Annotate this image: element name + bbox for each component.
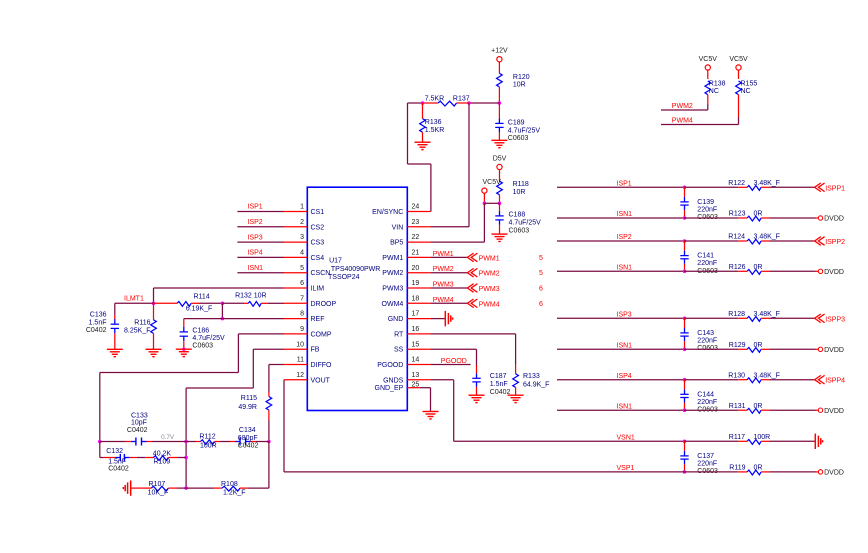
svg-text:24: 24	[412, 204, 420, 211]
wire ISN1 row to R129	[684, 348, 738, 350]
node R118/C188 junction	[498, 202, 502, 206]
resistor R128 3.48K_F	[728, 311, 780, 321]
node ISP4 junction	[683, 378, 687, 382]
pin 1 CS1 name and number	[300, 204, 324, 216]
pin 10 stub wire	[284, 348, 307, 350]
wire PWM1	[431, 256, 468, 258]
power VC5V for R155	[729, 56, 748, 70]
wire COMP route	[100, 334, 284, 442]
offpage connector ISPP2	[815, 237, 846, 246]
pin 20 stub wire	[407, 272, 430, 274]
svg-text:C134: C134	[239, 427, 256, 434]
pin 15 SS name and number	[394, 341, 419, 353]
pin 17 GND name and number	[388, 311, 420, 323]
svg-text:C132: C132	[106, 448, 123, 455]
wire C133 to FB node	[147, 441, 187, 443]
svg-text:4: 4	[300, 250, 304, 257]
svg-text:C141: C141	[697, 253, 714, 260]
pin 21 PWM1 name and number	[382, 250, 419, 262]
svg-text:C186: C186	[192, 327, 209, 334]
pin 7 DROOP name and number	[300, 295, 336, 307]
svg-text:220nF: 220nF	[697, 399, 717, 406]
svg-text:5: 5	[539, 270, 543, 277]
power DVDD VSP1	[818, 470, 844, 477]
svg-text:DVDD: DVDD	[824, 408, 844, 415]
wire D5V to R118	[499, 170, 501, 182]
pin 11 stub wire	[284, 364, 307, 366]
svg-text:21: 21	[412, 250, 420, 257]
resistor R116 8.25K_F	[124, 303, 156, 349]
wire SS to C187	[431, 349, 477, 373]
node FB/rowA junction	[184, 440, 188, 444]
wire node to EN/SYNC corner	[469, 102, 499, 104]
svg-text:R117: R117	[729, 434, 745, 441]
node PWM2 net label	[433, 266, 454, 273]
svg-text:R126: R126	[729, 264, 746, 271]
wire VC5V to BP5	[431, 203, 485, 242]
offpage connector PWM3	[467, 284, 499, 293]
svg-text:R114: R114	[194, 293, 210, 300]
resistor R137 7.5KR	[425, 96, 470, 106]
svg-text:0R: 0R	[754, 264, 763, 271]
svg-text:R115: R115	[241, 395, 257, 402]
svg-text:10R: 10R	[513, 81, 526, 88]
svg-text:CS1: CS1	[311, 209, 325, 216]
node VC5V junction	[483, 202, 487, 206]
resistor R155 NC	[736, 80, 758, 95]
offpage connector PWM2	[467, 268, 499, 277]
wire ISN1 row to R131	[684, 409, 738, 411]
resistor R109 40.2K	[153, 450, 172, 465]
svg-text:0R: 0R	[754, 465, 763, 472]
svg-text:64.9K_F: 64.9K_F	[523, 381, 549, 388]
svg-text:C0402: C0402	[490, 389, 511, 396]
offpage connector ISPP4	[815, 375, 846, 384]
svg-text:220nF: 220nF	[697, 260, 717, 267]
svg-text:GNDS: GNDS	[383, 377, 404, 384]
svg-text:ISP4: ISP4	[248, 250, 263, 257]
node ISN1 label	[617, 264, 633, 271]
offpage connector ISPP3	[815, 314, 846, 323]
wire R119 to DVDD	[770, 471, 819, 473]
resistor R107 10K_F	[148, 481, 169, 496]
pin 1 stub wire	[284, 211, 307, 213]
wire ISN1 row left	[557, 348, 684, 350]
svg-text:10pF: 10pF	[131, 420, 147, 427]
svg-text:9: 9	[300, 326, 304, 333]
svg-text:1.2K_F: 1.2K_F	[223, 489, 246, 496]
power VC5V	[482, 179, 501, 193]
wire VIN to +12V node	[431, 103, 469, 227]
resistor R131 0R	[729, 403, 763, 413]
page number 5 for PWM2	[539, 270, 543, 277]
svg-text:R136: R136	[425, 119, 442, 126]
pin 3 CS3 name and number	[300, 234, 324, 246]
wire R112 to C134	[215, 441, 236, 443]
node 0.7V label	[161, 434, 175, 441]
wire ISN1 row left	[557, 409, 684, 411]
wire rowA right end down to rowC	[268, 442, 270, 489]
wire ISP3 row left	[557, 317, 684, 319]
pin 19 stub wire	[407, 287, 430, 289]
wire R124 left stub	[738, 240, 747, 242]
wire R130 left stub	[738, 379, 747, 381]
wire R129 right stub	[761, 348, 769, 350]
wire R132 to DROOP	[261, 302, 284, 304]
svg-text:VSN1: VSN1	[617, 434, 635, 441]
svg-text:ISN1: ISN1	[617, 264, 633, 271]
pin 12 stub wire	[284, 379, 307, 381]
pin 13 stub wire	[407, 379, 430, 381]
svg-text:PWM3: PWM3	[479, 286, 500, 293]
wire R130 to ISPP4	[770, 379, 815, 381]
svg-text:COMP: COMP	[311, 331, 332, 338]
node REF junction	[221, 317, 225, 321]
svg-text:10: 10	[296, 341, 304, 348]
wire VSN1 to R117	[684, 440, 738, 442]
pin 9 stub wire	[284, 333, 307, 335]
svg-text:1.5nF: 1.5nF	[490, 381, 508, 388]
resistor R132 10R	[235, 293, 266, 307]
svg-text:VC5V: VC5V	[699, 56, 718, 63]
resistor R124 3.48K_F	[728, 234, 780, 244]
svg-text:CSCN: CSCN	[311, 270, 331, 277]
wire C132 to R109	[129, 457, 153, 459]
svg-text:19: 19	[412, 280, 420, 287]
svg-text:2: 2	[300, 219, 304, 226]
node VSN1 label	[617, 434, 635, 441]
ground C136	[107, 349, 123, 356]
wire R123 left stub	[738, 217, 747, 219]
wire R131 right stub	[761, 409, 769, 411]
svg-text:ISPP3: ISPP3	[825, 316, 845, 323]
wire R126 to DVDD	[770, 270, 819, 272]
svg-text:PWM3: PWM3	[433, 282, 454, 289]
pin 15 stub wire	[407, 348, 430, 350]
wire ISP4 row left	[557, 379, 684, 381]
capacitor C186 4.7uF/25V	[180, 319, 225, 350]
wire top row to EN/SYNC drop	[408, 102, 423, 104]
wire R128 to ISPP3	[770, 317, 815, 319]
ground R116	[146, 349, 162, 356]
node ISN1 label	[248, 265, 264, 272]
svg-text:NC: NC	[741, 88, 751, 95]
svg-text:23: 23	[412, 219, 420, 226]
pin 2 stub wire	[284, 226, 307, 228]
svg-text:ISP2: ISP2	[248, 219, 263, 226]
svg-text:DROOP: DROOP	[311, 301, 337, 308]
svg-text:SS: SS	[394, 347, 404, 354]
node ISP2 junction	[683, 239, 687, 243]
svg-text:RT: RT	[394, 331, 404, 338]
svg-text:0R: 0R	[754, 342, 763, 349]
svg-text:PWM4: PWM4	[479, 301, 500, 308]
wire ISP2 row left	[557, 240, 684, 242]
wire R128 left stub	[738, 317, 747, 319]
svg-text:49.9R: 49.9R	[238, 404, 257, 411]
svg-text:CS4: CS4	[311, 255, 325, 262]
svg-text:VOUT: VOUT	[311, 377, 331, 384]
capacitor C133 10pF	[127, 413, 148, 446]
pin 6 ILIM name and number	[300, 280, 324, 292]
svg-text:PWM1: PWM1	[479, 255, 500, 262]
svg-text:ISP1: ISP1	[248, 204, 263, 211]
svg-text:C187: C187	[490, 373, 507, 380]
pin 23 stub wire	[407, 226, 430, 228]
svg-text:C143: C143	[697, 330, 714, 337]
wire ILMT1 to C136	[115, 303, 154, 320]
ground R133	[508, 395, 524, 402]
node PWM4 net label	[433, 297, 454, 304]
resistor R118 10R	[497, 181, 529, 196]
node PWM1 net label	[433, 251, 454, 258]
svg-text:DVDD: DVDD	[824, 216, 844, 223]
svg-text:1.5KR: 1.5KR	[425, 127, 444, 134]
pin 16 RT name and number	[394, 326, 419, 338]
offpage connector PWM4	[467, 299, 499, 308]
svg-text:0R: 0R	[754, 211, 763, 218]
wire ISP2 row to R124	[684, 240, 738, 242]
resistor R133 64.9K_F	[513, 364, 550, 395]
svg-text:C188: C188	[509, 212, 526, 219]
U17 reference designator label	[328, 258, 380, 281]
wire EN/SYNC vertical	[408, 103, 431, 212]
ground rowC left	[123, 480, 130, 495]
wire R117 right stub	[761, 440, 769, 442]
resistor R123 0R	[729, 211, 763, 221]
svg-text:C0603: C0603	[508, 135, 529, 142]
ground C189	[491, 140, 507, 147]
page number 5 for PWM1	[539, 255, 543, 262]
svg-text:15: 15	[412, 341, 420, 348]
svg-text:C0603: C0603	[192, 343, 213, 350]
power D5V	[493, 156, 507, 170]
wire ISN1 row left	[557, 217, 684, 219]
pin 20 PWM2 name and number	[382, 265, 419, 277]
svg-text:ISPP1: ISPP1	[825, 185, 845, 192]
svg-text:10R: 10R	[254, 293, 267, 300]
ground C187	[469, 395, 485, 402]
svg-text:ISPP4: ISPP4	[825, 378, 845, 385]
wire R119 right stub	[761, 471, 769, 473]
wire R114 to node	[191, 302, 222, 304]
pin 16 stub wire	[407, 333, 430, 335]
wire FB route	[186, 349, 284, 488]
ground GND_EP	[423, 412, 439, 419]
page number 6 for PWM4	[539, 301, 543, 308]
pin 19 PWM3 name and number	[382, 280, 419, 292]
resistor R115 49.9R	[238, 395, 271, 442]
node ISP3 label	[248, 234, 263, 241]
offpage connector PWM1	[467, 253, 499, 262]
capacitor C144 220nF	[680, 380, 718, 414]
resistor R108 1.2K_F	[221, 481, 246, 496]
svg-text:220nF: 220nF	[697, 338, 717, 345]
svg-text:GND_EP: GND_EP	[375, 385, 404, 392]
svg-text:C139: C139	[697, 199, 714, 206]
offpage connector ISPP1	[815, 183, 846, 192]
node ISN1 label	[617, 403, 633, 410]
node ISP4 label	[248, 250, 263, 257]
node R137/VIN junction	[467, 101, 471, 105]
svg-text:40.2K: 40.2K	[153, 450, 172, 457]
svg-text:NC: NC	[709, 88, 719, 95]
svg-text:4.7uF/25V: 4.7uF/25V	[509, 219, 542, 226]
wire PWM2	[431, 272, 468, 274]
wire R118 to node	[499, 195, 501, 204]
pin 13 GNDS name and number	[383, 372, 419, 384]
wire PWM4 row	[661, 124, 739, 126]
svg-text:C144: C144	[697, 391, 714, 398]
svg-text:R131: R131	[729, 403, 746, 410]
wire R131 left stub	[738, 409, 747, 411]
wire GND pin 17	[431, 318, 446, 320]
svg-text:PWM4: PWM4	[672, 117, 693, 124]
svg-text:ILMT1: ILMT1	[124, 296, 144, 303]
node PWM3 net label	[433, 282, 454, 289]
wire ISN1 row to R126	[684, 270, 738, 272]
svg-text:ISP3: ISP3	[617, 311, 632, 318]
wire DIFFO route	[269, 365, 284, 397]
svg-text:DVDD: DVDD	[824, 470, 844, 477]
svg-text:3.48K_F: 3.48K_F	[754, 180, 780, 187]
power VC5V for R138	[699, 56, 718, 70]
wire net ISP1 to pin 1	[237, 211, 284, 213]
svg-text:R116: R116	[134, 320, 150, 327]
wire R123 to DVDD	[770, 217, 819, 219]
capacitor C143 220nF	[680, 318, 718, 352]
svg-text:ISN1: ISN1	[617, 403, 633, 410]
wire net ISP3 to pin 3	[237, 241, 284, 243]
pin 12 VOUT name and number	[296, 372, 330, 384]
pin 18 stub wire	[407, 302, 430, 304]
svg-text:0R: 0R	[754, 403, 763, 410]
capacitor C139 220nF	[680, 187, 718, 221]
node R120/C189 junction	[498, 101, 502, 105]
svg-text:20: 20	[412, 265, 420, 272]
wire R117 left stub	[738, 440, 747, 442]
svg-text:R124: R124	[728, 234, 745, 241]
node FB/rowC junction	[184, 486, 188, 490]
node ISN1 junction	[683, 216, 687, 220]
wire R124 to ISPP2	[770, 240, 815, 242]
svg-text:18: 18	[412, 295, 420, 302]
ground pin 17	[445, 311, 452, 326]
svg-text:3: 3	[300, 234, 304, 241]
wire net ISP2 to pin 2	[237, 226, 284, 228]
pin 7 stub wire	[284, 302, 307, 304]
wire ISP3 row to R128	[684, 317, 738, 319]
node PWM4 label	[672, 117, 693, 124]
svg-text:22: 22	[412, 234, 420, 241]
wire RT to R133	[431, 334, 516, 364]
svg-text:R155: R155	[741, 80, 758, 87]
svg-text:DVDD: DVDD	[824, 347, 844, 354]
svg-text:PGOOD: PGOOD	[377, 362, 403, 369]
svg-text:BP5: BP5	[390, 240, 403, 247]
svg-text:R128: R128	[728, 311, 745, 318]
svg-text:DIFFO: DIFFO	[311, 362, 333, 369]
node ISP1 label	[617, 180, 632, 187]
pin 14 stub wire	[407, 364, 430, 366]
ground R136	[415, 142, 431, 149]
power DVDD	[818, 347, 844, 354]
resistor R120	[497, 73, 530, 88]
wire PWM3	[431, 287, 468, 289]
svg-text:OWM4: OWM4	[382, 301, 404, 308]
svg-text:7.5KR: 7.5KR	[425, 96, 444, 103]
pin 2 CS2 name and number	[300, 219, 324, 231]
pin 5 CSCN name and number	[300, 265, 330, 277]
svg-text:PGOOD: PGOOD	[441, 358, 467, 365]
node ISN1 junction	[683, 408, 687, 412]
svg-text:U17: U17	[329, 258, 342, 265]
node PWM2 label	[672, 103, 693, 110]
wire ILIM pin6 to ILMT1	[154, 288, 285, 303]
svg-text:100R: 100R	[200, 443, 217, 450]
svg-text:GND: GND	[388, 316, 404, 323]
wire node to R132	[222, 302, 248, 304]
pin 10 FB name and number	[296, 341, 320, 353]
svg-text:+12V: +12V	[491, 48, 508, 55]
wire GNDS to VSN1	[431, 380, 684, 442]
svg-text:ILIM: ILIM	[311, 286, 325, 293]
node C186 ground junction	[182, 348, 185, 351]
svg-text:PWM1: PWM1	[382, 255, 403, 262]
pin 21 stub wire	[407, 256, 430, 258]
svg-text:13: 13	[412, 372, 420, 379]
svg-text:R133: R133	[523, 373, 540, 380]
node ISN1 label	[617, 342, 633, 349]
svg-text:14: 14	[412, 357, 420, 364]
svg-text:D5V: D5V	[493, 156, 507, 163]
svg-text:10R: 10R	[513, 189, 526, 196]
resistor R114 6.19K_F	[177, 293, 212, 312]
svg-text:ISP2: ISP2	[617, 234, 632, 241]
wire VC5V to R138	[707, 70, 709, 79]
capacitor C141 220nF	[680, 241, 718, 275]
svg-text:3.48K_F: 3.48K_F	[754, 311, 780, 318]
power +12V	[491, 48, 508, 62]
svg-text:R118: R118	[513, 181, 529, 188]
pin 24 EN/SYNC name and number	[372, 204, 419, 216]
wire FB node to R112	[186, 441, 200, 443]
wire R126 left stub	[738, 270, 747, 272]
svg-text:VIN: VIN	[392, 224, 404, 231]
wire R107 to FB node	[168, 487, 186, 489]
svg-text:1.5nF: 1.5nF	[89, 320, 107, 327]
svg-text:R137: R137	[453, 96, 470, 103]
pin 14 PGOOD name and number	[377, 357, 419, 369]
wire VOUT route	[284, 380, 684, 472]
pin 25 GND_EP name and number	[375, 382, 420, 393]
svg-text:R122: R122	[728, 180, 745, 187]
wire rowA left	[100, 441, 131, 443]
svg-text:4.7uF/25V: 4.7uF/25V	[192, 335, 225, 342]
wire ISP4 row to R130	[684, 379, 738, 381]
svg-text:ISPP2: ISPP2	[825, 239, 845, 246]
wire R122 to ISPP1	[770, 186, 815, 188]
svg-text:8: 8	[300, 311, 304, 318]
node R114/R132 junction	[221, 302, 225, 306]
pin 8 REF name and number	[300, 311, 324, 323]
wire ISP1 row to R122	[684, 186, 738, 188]
node COMP/rowA junction	[98, 440, 102, 444]
svg-text:6: 6	[539, 286, 543, 293]
wire R126 right stub	[761, 270, 769, 272]
wire VC5V down	[483, 193, 485, 203]
wire R120 to node	[498, 87, 500, 103]
